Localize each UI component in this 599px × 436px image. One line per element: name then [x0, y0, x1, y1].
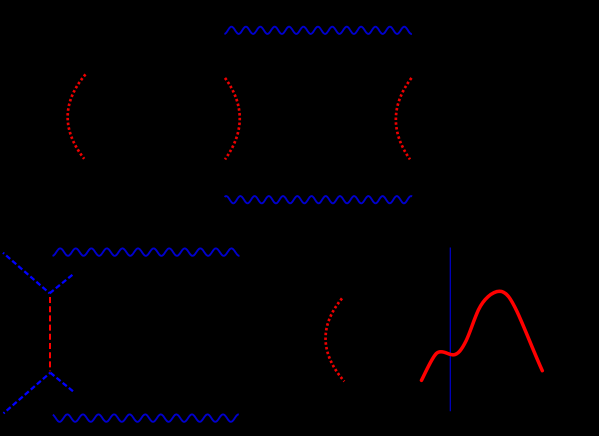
photon wavy line top (top diagram) [224, 27, 412, 34]
red dashed exchange line between vertices [49, 297, 51, 371]
blue dashed outgoing line lower-left [4, 373, 51, 414]
red dotted arc parenthesis opening (top-right) [396, 78, 412, 159]
blue vertical axis line [449, 248, 451, 412]
blue dashed incoming line upper-left [3, 253, 50, 293]
photon wavy line upper (bottom-left diagram) [53, 248, 240, 255]
red dotted arc parenthesis closing (top-middle) [225, 78, 240, 159]
blue dashed stub lower-right of vertex 2 [50, 373, 73, 392]
red dotted arc parenthesis (bottom-right) [326, 298, 345, 381]
blue dashed stub upper-right of vertex 1 [50, 274, 74, 294]
photon wavy line lower (bottom-left diagram) [53, 414, 239, 421]
red curve (plot) [422, 291, 543, 380]
photon wavy line bottom (top diagram) [225, 196, 413, 203]
red dotted arc parenthesis left (top-left) [68, 74, 86, 158]
